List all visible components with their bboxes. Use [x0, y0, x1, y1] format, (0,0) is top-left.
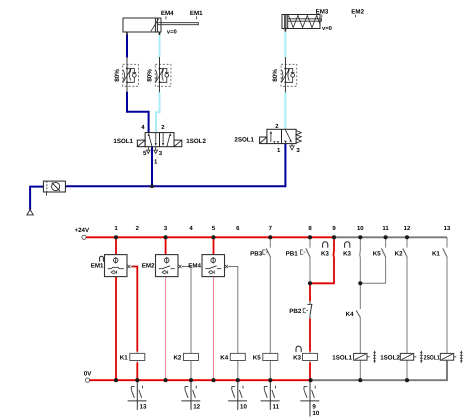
svg-text:11: 11	[382, 225, 389, 232]
svg-text:PB3: PB3	[250, 250, 263, 257]
svg-text:4: 4	[189, 225, 193, 232]
svg-text:2: 2	[161, 124, 165, 131]
svg-text:K3: K3	[343, 250, 351, 257]
svg-text:4: 4	[141, 124, 145, 131]
svg-text:+24V: +24V	[75, 227, 90, 234]
svg-text:1SOL2: 1SOL2	[380, 354, 400, 361]
svg-text:EM2: EM2	[142, 263, 155, 270]
svg-text:EM2: EM2	[351, 9, 364, 16]
svg-text:1SOL2: 1SOL2	[186, 138, 206, 145]
svg-text:5: 5	[212, 225, 216, 232]
svg-text:9: 9	[332, 225, 336, 232]
svg-text:K3: K3	[293, 354, 301, 361]
svg-text:K5: K5	[373, 250, 381, 257]
svg-text:K5: K5	[253, 354, 261, 361]
svg-text:11: 11	[273, 404, 280, 411]
svg-text:EM3: EM3	[316, 9, 329, 16]
svg-text:2SOL1: 2SOL1	[424, 354, 440, 361]
svg-text:v=0: v=0	[322, 25, 332, 32]
svg-text:80%: 80%	[114, 69, 121, 82]
svg-text:v=0: v=0	[167, 28, 177, 35]
svg-text:PB1: PB1	[286, 250, 299, 257]
svg-text:80%: 80%	[272, 69, 279, 82]
svg-text:10: 10	[357, 225, 364, 232]
svg-text:12: 12	[193, 404, 200, 411]
svg-text:10: 10	[240, 404, 247, 411]
svg-text:3: 3	[164, 225, 168, 232]
svg-text:2: 2	[136, 225, 140, 232]
svg-text:10: 10	[312, 410, 319, 417]
svg-text:K3: K3	[321, 250, 329, 257]
svg-text:3: 3	[296, 147, 300, 154]
svg-text:K1: K1	[432, 250, 440, 257]
svg-text:2: 2	[275, 123, 279, 130]
svg-text:1: 1	[154, 159, 158, 166]
svg-text:1SOL1: 1SOL1	[113, 138, 133, 145]
svg-text:0V: 0V	[84, 370, 92, 377]
svg-text:3: 3	[159, 150, 163, 157]
svg-text:EM4: EM4	[188, 263, 201, 270]
svg-text:1SOL1: 1SOL1	[332, 354, 352, 361]
svg-text:1: 1	[114, 225, 118, 232]
svg-text:EM1: EM1	[190, 10, 203, 17]
svg-text:2SOL1: 2SOL1	[234, 137, 254, 144]
svg-text:12: 12	[404, 225, 411, 232]
svg-text:7: 7	[269, 225, 273, 232]
svg-text:1: 1	[277, 147, 281, 154]
svg-text:8: 8	[308, 225, 312, 232]
svg-text:K4: K4	[346, 311, 354, 318]
svg-text:6: 6	[236, 225, 240, 232]
svg-text:13: 13	[140, 404, 147, 411]
svg-text:EM4: EM4	[161, 10, 174, 17]
svg-text:K2: K2	[395, 250, 403, 257]
svg-text:PB2: PB2	[289, 308, 302, 315]
svg-text:80%: 80%	[146, 69, 153, 82]
svg-text:K2: K2	[173, 354, 181, 361]
svg-text:13: 13	[444, 225, 451, 232]
svg-text:EM1: EM1	[91, 263, 104, 270]
svg-text:K1: K1	[120, 354, 128, 361]
svg-text:K4: K4	[220, 354, 228, 361]
